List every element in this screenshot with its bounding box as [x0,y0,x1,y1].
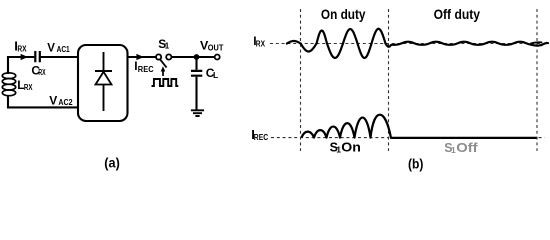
svg-text:On: On [341,139,361,154]
diode D1 anode lead [103,85,105,112]
svg-text:RX: RX [38,68,46,77]
capacitor CL [191,71,202,76]
diode D1 triangle [96,72,112,85]
diode D1 cathode bar [95,70,112,72]
diode D1 cathode lead [103,52,105,71]
IREC waveform humps [302,115,537,138]
ground [191,110,204,116]
svg-text:V: V [49,93,57,107]
IRX end overlap stroke [531,42,542,43]
pulse control symbol [152,79,179,86]
svg-text:1: 1 [165,42,170,51]
svg-text:Off: Off [456,140,478,155]
current arrow IRX [21,54,29,60]
svg-text:(b): (b) [408,156,423,171]
wire: left vertical bottom + bottom horizontal [8,95,78,107]
IRX waveform [287,29,548,58]
IREC dashed baseline [271,137,545,139]
svg-text:(a): (a) [104,155,120,170]
wire: top-left horizontal [8,56,78,58]
output terminal [215,55,220,60]
svg-text:RX: RX [17,44,27,53]
dashed divider: right end [536,9,538,151]
capacitor CRX [35,51,40,62]
wire: left vertical top [7,56,9,74]
svg-text:AC2: AC2 [58,98,73,107]
wire: switch to output [172,56,215,58]
current arrow IREC [136,54,144,60]
svg-text:V: V [47,42,55,54]
svg-text:RX: RX [256,39,266,48]
dashed divider: on/off boundary [388,9,390,151]
svg-text:Off duty: Off duty [434,6,481,22]
switch S1 contact right [166,54,171,59]
svg-text:REC: REC [138,65,154,74]
svg-text:AC1: AC1 [57,45,71,54]
wire: junction down to CL [195,57,197,70]
rectifier box U1 [78,45,128,121]
switch S1 blade [160,60,166,68]
switch S1 contact left [156,54,161,59]
wire: box to switch [128,56,157,58]
svg-text:On duty: On duty [321,6,366,22]
svg-text:L: L [213,70,218,80]
IRX dashed baseline [270,43,545,45]
svg-text:RX: RX [24,83,33,92]
inductor LRX coil [2,73,15,96]
junction node [194,54,200,60]
switch control arrow [162,71,164,76]
wire: CL to ground [195,77,197,111]
svg-text:REC: REC [254,133,269,142]
svg-text:1: 1 [451,145,456,155]
dashed divider: on-duty start [300,9,302,151]
svg-text:OUT: OUT [208,44,224,53]
